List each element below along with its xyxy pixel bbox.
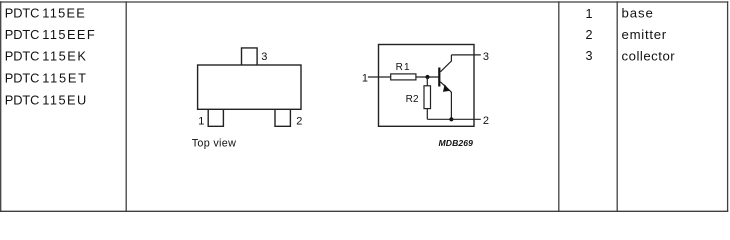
wire R1 to base	[416, 76, 439, 78]
wire collector to pin 3	[451, 54, 480, 56]
svg-text:3: 3	[261, 51, 267, 63]
svg-text:base: base	[622, 6, 653, 21]
svg-text:PDTC: PDTC	[5, 70, 40, 85]
svg-text:R1: R1	[396, 62, 411, 73]
table column divider after type numbers	[125, 1, 127, 212]
resistor R1	[391, 74, 416, 80]
svg-text:emitter: emitter	[622, 27, 667, 42]
svg-text:PDTC: PDTC	[5, 92, 40, 107]
transistor emitter diagonal	[440, 82, 451, 92]
svg-text:2: 2	[483, 115, 489, 127]
svg-text:1: 1	[198, 115, 204, 127]
svg-text:3: 3	[483, 51, 489, 63]
package bottom tab pin 1	[208, 109, 223, 126]
svg-text:115EEF: 115EEF	[42, 27, 95, 42]
table outer border left	[0, 1, 2, 212]
svg-text:PDTC: PDTC	[5, 48, 40, 63]
schematic enclosure box	[379, 45, 475, 127]
svg-text:2: 2	[296, 115, 302, 127]
wire pin1 to R1	[368, 76, 391, 78]
table outer border top	[0, 1, 728, 3]
svg-text:PDTC: PDTC	[5, 27, 40, 42]
transistor collector diagonal	[440, 55, 451, 72]
wire node to R2 top	[426, 77, 428, 86]
table outer border bottom	[0, 210, 728, 212]
svg-text:Top view: Top view	[192, 138, 236, 150]
svg-text:PDTC: PDTC	[5, 5, 40, 20]
table column divider before pin numbers	[558, 1, 560, 212]
svg-text:collector: collector	[622, 49, 676, 64]
svg-text:1: 1	[362, 73, 368, 85]
package top tab pin 3	[242, 48, 258, 65]
svg-text:1: 1	[585, 7, 592, 21]
svg-text:MDB269: MDB269	[439, 138, 474, 148]
node junction emitter/R2/pin2	[449, 117, 453, 121]
wire R2 bottom down	[426, 109, 428, 120]
wire R2 to emitter node	[427, 118, 451, 120]
table outer border right	[727, 1, 729, 212]
transistor Q1 base bar	[438, 68, 440, 87]
package body (top view)	[198, 65, 301, 109]
transistor emitter arrowhead	[443, 84, 450, 92]
svg-text:R2: R2	[406, 94, 419, 105]
node junction base/R2	[425, 75, 429, 79]
svg-text:2: 2	[585, 28, 592, 42]
resistor R2	[424, 86, 431, 109]
table column divider before pin names	[616, 1, 618, 212]
package bottom tab pin 2	[275, 109, 290, 126]
wire node to pin 2	[451, 118, 480, 120]
svg-text:3: 3	[585, 49, 592, 63]
wire emitter down	[450, 92, 452, 119]
